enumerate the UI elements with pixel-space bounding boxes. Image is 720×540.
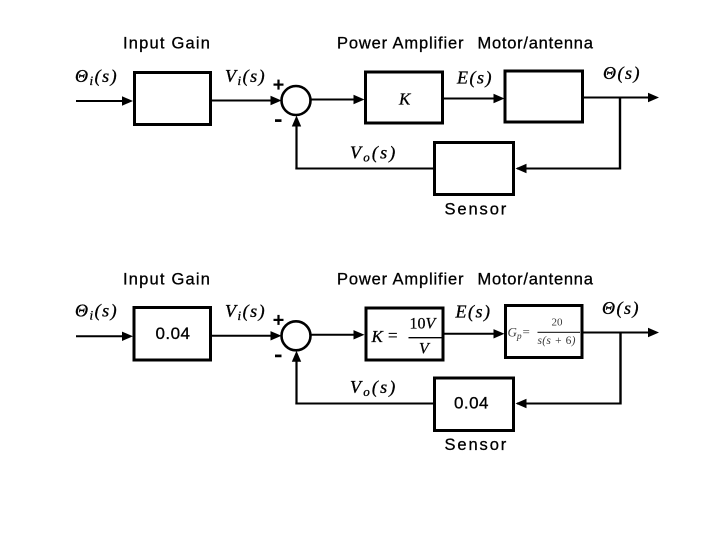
svg-text:Input Gain: Input Gain [123, 35, 211, 53]
wire output branch down to feedback (bottom) [619, 333, 621, 405]
svg-text:Motor/antenna: Motor/antenna [478, 35, 594, 53]
svg-text:Θ(s): Θ(s) [602, 298, 640, 319]
label Sensor (top) [445, 200, 509, 218]
label Input Gain (bottom) [123, 270, 211, 288]
svg-text:K: K [398, 90, 412, 109]
wire gain block to summer (bottom) [212, 331, 282, 340]
svg-text:Motor/antenna: Motor/antenna [478, 270, 594, 288]
svg-text:E(s): E(s) [455, 302, 492, 323]
block input gain 0.04 (bottom) [134, 308, 211, 361]
block power amplifier K = 10V/V (bottom) [366, 308, 443, 360]
wire output branch down to feedback (top) [619, 98, 621, 170]
node Theta(s) output label (top) [603, 63, 641, 84]
label Motor/antenna (top) [478, 35, 594, 53]
svg-text:=: = [523, 324, 530, 339]
svg-text:10V: 10V [410, 316, 438, 333]
wire input-gain block to summer (top) [212, 96, 282, 105]
block power amplifier K (top) [366, 72, 443, 123]
svg-text:0.04: 0.04 [454, 394, 489, 413]
label Sensor (bottom) [445, 436, 509, 454]
block sensor 0.04 (bottom) [435, 378, 514, 431]
svg-text:Power Amplifier: Power Amplifier [337, 35, 464, 53]
svg-text:Θi(s): Θi(s) [75, 301, 118, 323]
wire summer to power-amplifier block (bottom) [311, 330, 365, 339]
svg-text:Θi(s): Θi(s) [75, 66, 118, 88]
svg-text:20: 20 [552, 317, 564, 329]
svg-text:Vo(s): Vo(s) [350, 143, 398, 165]
svg-text:Sensor: Sensor [445, 436, 509, 454]
wire feedback into sensor block (bottom) [516, 399, 621, 408]
wire power amplifier to motor block (top) [444, 94, 505, 103]
node Theta(s) output label (bottom) [602, 298, 640, 319]
node E(s) label (bottom) [455, 302, 492, 323]
block sensor, empty (top) [435, 143, 514, 195]
plus sign (bottom) [274, 315, 284, 325]
summing junction circle (top) [282, 86, 311, 115]
block input gain, empty (top) [135, 73, 211, 125]
node V_o(s) label (top) [350, 143, 398, 165]
node Theta_i(s) input label (top) [75, 66, 118, 88]
block motor/antenna Gp = 20/(s(s+6)) (bottom) [506, 306, 583, 358]
node V_o(s) label (bottom) [350, 377, 398, 399]
svg-text:0.04: 0.04 [156, 324, 191, 343]
svg-text:Vo(s): Vo(s) [350, 377, 398, 399]
label Power Amplifier (top) [337, 35, 464, 53]
svg-text:Sensor: Sensor [445, 200, 509, 218]
wire feedback into sensor block (top) [516, 164, 621, 173]
svg-text:K: K [371, 327, 385, 346]
block motor/antenna, empty (top) [505, 71, 583, 122]
svg-text:Vi(s): Vi(s) [225, 66, 266, 88]
summing junction circle (bottom) [282, 321, 311, 350]
node Theta_i(s) input label (bottom) [75, 301, 118, 323]
svg-text:Vi(s): Vi(s) [225, 301, 266, 323]
wire output arrow from motor block (top) [584, 93, 659, 102]
minus sign (top) [275, 119, 282, 122]
wire summer to power-amplifier block (top) [311, 95, 365, 104]
label Motor/antenna (bottom) [478, 270, 594, 288]
minus sign (bottom) [275, 355, 282, 358]
svg-text:Input Gain: Input Gain [123, 270, 211, 288]
wire input arrow into input-gain block (top) [76, 96, 133, 105]
svg-text:s(s + 6): s(s + 6) [538, 335, 576, 347]
wire input arrow into 0.04 gain block (bottom) [76, 332, 133, 341]
wire sensor to summer feedback (bottom) [292, 351, 433, 405]
wire sensor to summer feedback (top) [292, 116, 433, 170]
svg-text:Power Amplifier: Power Amplifier [337, 270, 464, 288]
node V_i(s) label (bottom) [225, 301, 266, 323]
svg-text:=: = [388, 326, 398, 345]
plus sign (top) [274, 80, 284, 90]
label Input Gain (top) [123, 35, 211, 53]
node V_i(s) label (top) [225, 66, 266, 88]
label Power Amplifier (bottom) [337, 270, 464, 288]
node E(s) label (top) [456, 68, 493, 89]
svg-text:E(s): E(s) [456, 68, 493, 89]
svg-text:Θ(s): Θ(s) [603, 63, 641, 84]
wire power amplifier to motor block (bottom) [444, 329, 505, 338]
wire output arrow from motor block (bottom) [582, 328, 659, 337]
